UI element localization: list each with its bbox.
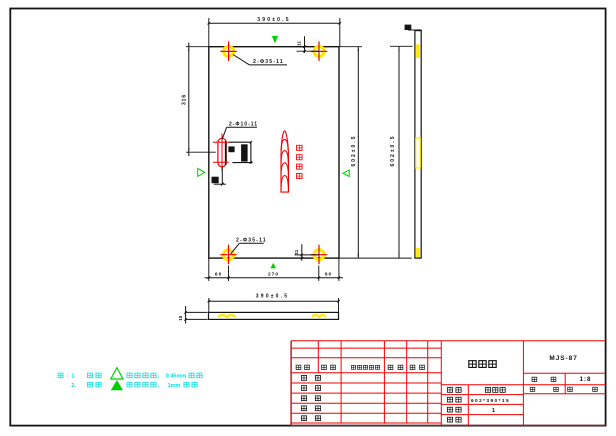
svg-text:390±0.5: 390±0.5	[256, 294, 289, 300]
dim 11 top-right	[297, 36, 319, 53]
dim 602±0.5 (side view)	[339, 46, 413, 258]
svg-text:60: 60	[215, 272, 222, 278]
label 2-D35-11 (bottom holes)	[231, 238, 267, 254]
svg-text:1: 1	[492, 408, 495, 414]
svg-text:602±0.5: 602±0.5	[390, 134, 396, 166]
svg-text:1mm: 1mm	[168, 383, 181, 389]
side view yellow mark middle	[416, 138, 421, 168]
side view top marker arrow	[408, 29, 422, 31]
dim 60-270-60 bottom	[205, 258, 344, 281]
wood grain symbol (red)	[281, 131, 289, 192]
material/spec/qty rows	[447, 388, 510, 422]
svg-text:2.: 2.	[71, 383, 76, 389]
hollow green triangle right edge	[343, 170, 349, 176]
hole top-right (2-D35)	[311, 41, 327, 61]
panel top view strip	[209, 312, 339, 319]
svg-text:602±0.5: 602±0.5	[351, 134, 357, 166]
door panel outline (front view)	[209, 47, 339, 258]
hinge lower square	[212, 177, 219, 184]
filled green triangle bottom edge	[271, 263, 277, 269]
part name cell	[469, 361, 476, 368]
hinge lower stem	[221, 167, 223, 184]
label 2-D35-11 (top holes)	[233, 55, 287, 66]
svg-text:11: 11	[294, 249, 299, 254]
svg-text:15: 15	[178, 315, 183, 321]
hinge slot inner black line	[225, 141, 227, 165]
note line 1 text after triangle	[127, 373, 202, 379]
hinge slot red stadium	[218, 138, 226, 167]
dim 11 bottom-right	[294, 244, 319, 261]
note line 2	[71, 382, 101, 388]
filled green triangle top edge	[272, 36, 278, 43]
hole bottom-right (2-D35)	[311, 245, 327, 265]
dim 390±0.5 bottom	[208, 294, 340, 313]
svg-text:2-Φ10-11: 2-Φ10-11	[229, 121, 258, 127]
side view strip	[415, 31, 421, 259]
side view top marker square	[405, 25, 412, 30]
dim 602±0.5 (front view)	[339, 47, 362, 258]
svg-text:MJS-87: MJS-87	[549, 355, 577, 362]
svg-text:2-Φ35-11: 2-Φ35-11	[253, 59, 284, 65]
sheet count row	[530, 387, 535, 391]
side view yellow mark bottom	[416, 248, 420, 258]
hinge bracket tall block	[241, 144, 248, 161]
svg-text:0.45mm: 0.45mm	[166, 374, 187, 380]
svg-text:2-Φ35-11: 2-Φ35-11	[236, 238, 267, 244]
side view yellow mark top	[416, 44, 420, 58]
svg-text:316: 316	[181, 94, 187, 105]
scale label	[532, 377, 537, 381]
title block revision/role labels	[296, 365, 424, 420]
hinge bracket small square	[228, 146, 234, 152]
hole bottom-left (2-D35)	[220, 245, 236, 265]
svg-text:602*390*15: 602*390*15	[471, 398, 510, 404]
title block grid (red)	[291, 341, 605, 426]
wood grain text (red, vertical)	[297, 145, 303, 150]
hinge lower base line	[214, 183, 226, 185]
svg-text:1:8: 1:8	[580, 376, 592, 383]
hinge bracket right line	[250, 142, 252, 163]
hinge slot vertical centreline	[221, 133, 223, 171]
label 2-D10-11 (hinge)	[222, 121, 258, 139]
note line 2 text after triangle	[127, 382, 197, 388]
svg-text:270: 270	[268, 272, 279, 278]
hole top-left (2-D35)	[220, 41, 236, 61]
svg-text:60: 60	[325, 272, 332, 278]
hinge slot upper cross	[213, 141, 229, 143]
svg-text:11: 11	[297, 41, 302, 46]
hinge bracket top line	[229, 141, 251, 143]
top view yellow mark right	[312, 315, 326, 317]
dim 15 thickness	[178, 306, 207, 324]
hollow green triangle left edge	[198, 168, 205, 176]
top view yellow mark left	[218, 315, 236, 317]
hinge slot lower cross	[213, 161, 229, 163]
svg-text:1.: 1.	[71, 374, 76, 380]
svg-text:390±0.5: 390±0.5	[257, 17, 290, 23]
svg-text::: :	[67, 374, 69, 380]
dim 390±0.5 top	[208, 17, 341, 47]
hinge bracket bottom line	[232, 162, 252, 164]
note line 1	[58, 373, 101, 379]
dim 316 left	[181, 43, 216, 157]
note triangle hollow	[111, 368, 123, 379]
note triangle filled	[111, 380, 123, 390]
